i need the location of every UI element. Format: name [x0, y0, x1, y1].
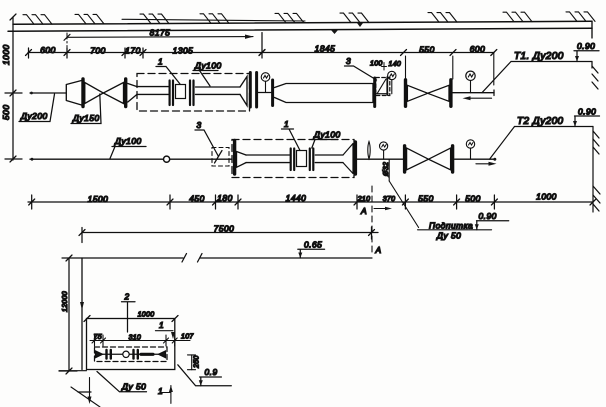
svg-text:210: 210: [357, 196, 371, 203]
pipe double line to flange pair: [137, 87, 169, 95]
wall hatch group 8: [503, 12, 532, 22]
flow arrow down: [80, 302, 84, 310]
svg-text:500: 500: [1, 105, 11, 120]
small dim right of rect: [191, 355, 193, 370]
dashed box row2: [232, 140, 354, 178]
wall hatch right upper: [593, 131, 599, 154]
pipe after valve row1: [453, 92, 495, 94]
svg-text:Ду150: Ду150: [72, 113, 100, 123]
svg-text:1500: 1500: [88, 194, 109, 204]
lower assembly cone right: [159, 351, 166, 358]
wall hatch group 9: [566, 12, 595, 22]
svg-text:500: 500: [465, 194, 480, 204]
flange F5: [373, 78, 376, 107]
svg-text:1845: 1845: [315, 44, 336, 54]
svg-text:700: 700: [90, 46, 105, 56]
pipe after valve row2: [455, 158, 496, 160]
svg-text:140: 140: [389, 61, 402, 68]
svg-text:А: А: [375, 245, 382, 255]
reducer cone row1 left: [66, 81, 81, 106]
pipe row2 left: [30, 158, 232, 160]
extension line x493.8: [493, 53, 495, 85]
dashed box row1: [137, 74, 250, 112]
svg-text:0.90: 0.90: [479, 211, 497, 221]
svg-text:Т2 Ду200: Т2 Ду200: [517, 116, 564, 127]
wall hatch group 6: [340, 13, 369, 23]
svg-text:1: 1: [158, 386, 163, 396]
tall flange F3a: [249, 73, 252, 108]
svg-text:370: 370: [383, 196, 396, 203]
pipe double line mid: [196, 87, 241, 94]
cone after valve: [128, 84, 137, 103]
gate valve V1 Du150: [85, 83, 104, 104]
podpitka underline: [418, 229, 492, 231]
wall hatch group 4: [200, 14, 229, 23]
flow arrow row1 (left): [468, 97, 492, 99]
gauge G4: [380, 142, 388, 150]
tube row2 a: [246, 155, 290, 163]
extension line x262: [261, 33, 263, 58]
svg-text:1: 1: [159, 320, 164, 330]
svg-text:Ду 50: Ду 50: [121, 382, 146, 392]
wall hatch group 2: [75, 14, 104, 24]
expanding cone right of box: [240, 77, 247, 106]
svg-text:Ø32: Ø32: [383, 162, 390, 177]
left vertical dimension line: [12, 17, 14, 160]
internal dim row: [90, 340, 190, 342]
svg-text:Ду100: Ду100: [313, 130, 341, 140]
pipe segment start: [30, 92, 66, 94]
svg-text:Ду100: Ду100: [194, 61, 222, 71]
svg-text:600: 600: [40, 45, 55, 55]
svg-text:3: 3: [346, 56, 351, 66]
thermowell lens: [368, 142, 370, 159]
svg-text:7500: 7500: [214, 224, 235, 234]
extension line x67: [66, 33, 68, 56]
T2 label line: [515, 126, 594, 128]
svg-text:1000: 1000: [138, 312, 155, 319]
svg-text:2: 2: [124, 292, 130, 302]
orifice item3 row1: [376, 78, 390, 96]
flange pair FP1: [169, 81, 171, 106]
svg-text:1440: 1440: [286, 193, 307, 203]
svg-text:1305: 1305: [173, 46, 194, 56]
item 1 box row2: [297, 151, 307, 167]
lower assembly circle: [123, 351, 129, 357]
chamber rectangle: [87, 319, 175, 370]
valve V3 flange left: [403, 146, 406, 172]
svg-text:170: 170: [125, 46, 140, 56]
svg-text:75: 75: [94, 334, 102, 341]
tall flange TF2: [353, 142, 357, 174]
vertical dim 12000: [68, 258, 70, 371]
venturi tube row1: [275, 84, 374, 103]
wall third line partial: [122, 19, 305, 21]
pipe row2 mid: [357, 158, 404, 160]
section arrow A: [374, 208, 389, 210]
gate valve V2 Du200: [407, 85, 427, 101]
riser diagonal T1: [482, 62, 511, 93]
top dimension row line: [28, 52, 494, 54]
T1 label line: [511, 61, 592, 63]
riser diagonal T2: [490, 127, 515, 160]
right wall line below T2: [592, 127, 594, 213]
svg-text:Т1. Ду200: Т1. Ду200: [514, 51, 564, 62]
junction circle row2: [164, 156, 170, 162]
svg-text:8175: 8175: [150, 28, 171, 38]
cone row2 right: [343, 144, 353, 174]
dimension line 8175: [67, 36, 253, 39]
svg-text:180: 180: [217, 193, 232, 203]
flange pair row2 a: [290, 149, 292, 171]
wall anchor mark 1: [331, 30, 338, 34]
svg-text:А: А: [360, 206, 367, 216]
dim line 7500: [82, 232, 378, 234]
svg-text:Ду200: Ду200: [20, 111, 48, 121]
gauge G3: [466, 71, 475, 80]
wall hatch at T1 exit: [592, 62, 598, 90]
flange F4: [271, 80, 274, 106]
svg-text:107: 107: [181, 334, 194, 341]
rect bottom extension left: [59, 370, 87, 372]
svg-text:Подпитка: Подпитка: [429, 221, 473, 231]
wall hatch group 3: [140, 14, 169, 24]
dashed box lower: [95, 347, 168, 362]
svg-text:600: 600: [470, 44, 485, 54]
svg-text:3: 3: [197, 120, 202, 130]
wall hatch group 7: [428, 13, 457, 23]
gauge G1: [261, 73, 270, 82]
svg-text:550: 550: [418, 194, 433, 204]
drain stub with arrow: [89, 378, 91, 402]
plan pipe top line: [62, 257, 183, 259]
flange F7: [449, 80, 452, 107]
section line A-A: [371, 186, 373, 256]
drain leader to podpitka: [389, 181, 418, 228]
flange F1: [81, 79, 84, 107]
svg-text:0.90: 0.90: [577, 41, 595, 51]
dim 8175 tick left: [64, 34, 70, 40]
svg-text:0.9: 0.9: [205, 367, 218, 377]
wall bottom line: [8, 28, 592, 31]
flange F2: [124, 79, 127, 107]
svg-text:250: 250: [194, 355, 201, 369]
svg-text:0.90: 0.90: [578, 107, 596, 117]
svg-text:0.65: 0.65: [304, 240, 322, 250]
gauge G2: [388, 71, 396, 79]
drain line down: [388, 159, 390, 181]
valve V3 flange right: [451, 146, 454, 172]
svg-text:Ду 50: Ду 50: [436, 231, 461, 241]
wall hatch group 5: [275, 13, 304, 23]
flange F6: [404, 80, 407, 107]
item 1 box row1: [176, 85, 186, 99]
tall flange TF1: [233, 141, 236, 175]
cone row2 left: [237, 152, 247, 168]
svg-text:1: 1: [158, 57, 163, 67]
svg-text:310: 310: [129, 335, 142, 342]
vertical pipe down: [81, 258, 83, 370]
svg-text:12000: 12000: [62, 291, 69, 312]
wall anchor mark 2: [357, 23, 363, 27]
flange pair FP2: [189, 81, 191, 106]
gate valve V3: [407, 148, 429, 170]
tube row2 b: [315, 155, 343, 163]
svg-text:1000: 1000: [536, 192, 557, 202]
svg-text:Ду100: Ду100: [114, 136, 142, 146]
break marks: [182, 254, 187, 263]
short pipe: [258, 92, 271, 94]
svg-text:1000: 1000: [1, 44, 11, 65]
lower assembly pipe: [96, 353, 165, 355]
lower assembly flange pair a: [105, 350, 107, 359]
svg-text:450: 450: [189, 194, 204, 204]
flange pair row2 b: [309, 149, 311, 171]
extension line x453: [452, 56, 454, 79]
svg-text:1: 1: [284, 119, 289, 129]
lower assembly cone left: [96, 351, 103, 358]
wall hatch group 1: [23, 15, 52, 25]
wall hatch right lower: [593, 186, 600, 211]
ground slash bottom left: [71, 387, 100, 407]
flow arrow row2 (right): [476, 163, 493, 165]
gauge G5: [466, 140, 474, 148]
wall top line: [13, 21, 592, 24]
leader to elevation 0.9: [178, 365, 232, 386]
tall flange F3b: [255, 73, 258, 108]
lower assembly flange pair b: [132, 350, 134, 359]
bottom dimension line: [28, 201, 593, 203]
svg-text:550: 550: [419, 45, 434, 55]
lower assembly body: [141, 353, 153, 356]
svg-text:100: 100: [370, 61, 383, 68]
extension line x403.5: [405, 56, 407, 79]
top dim ticks: [26, 48, 497, 58]
item 3 dashed box row2: [212, 148, 229, 167]
wall end vertical right: [591, 22, 593, 39]
